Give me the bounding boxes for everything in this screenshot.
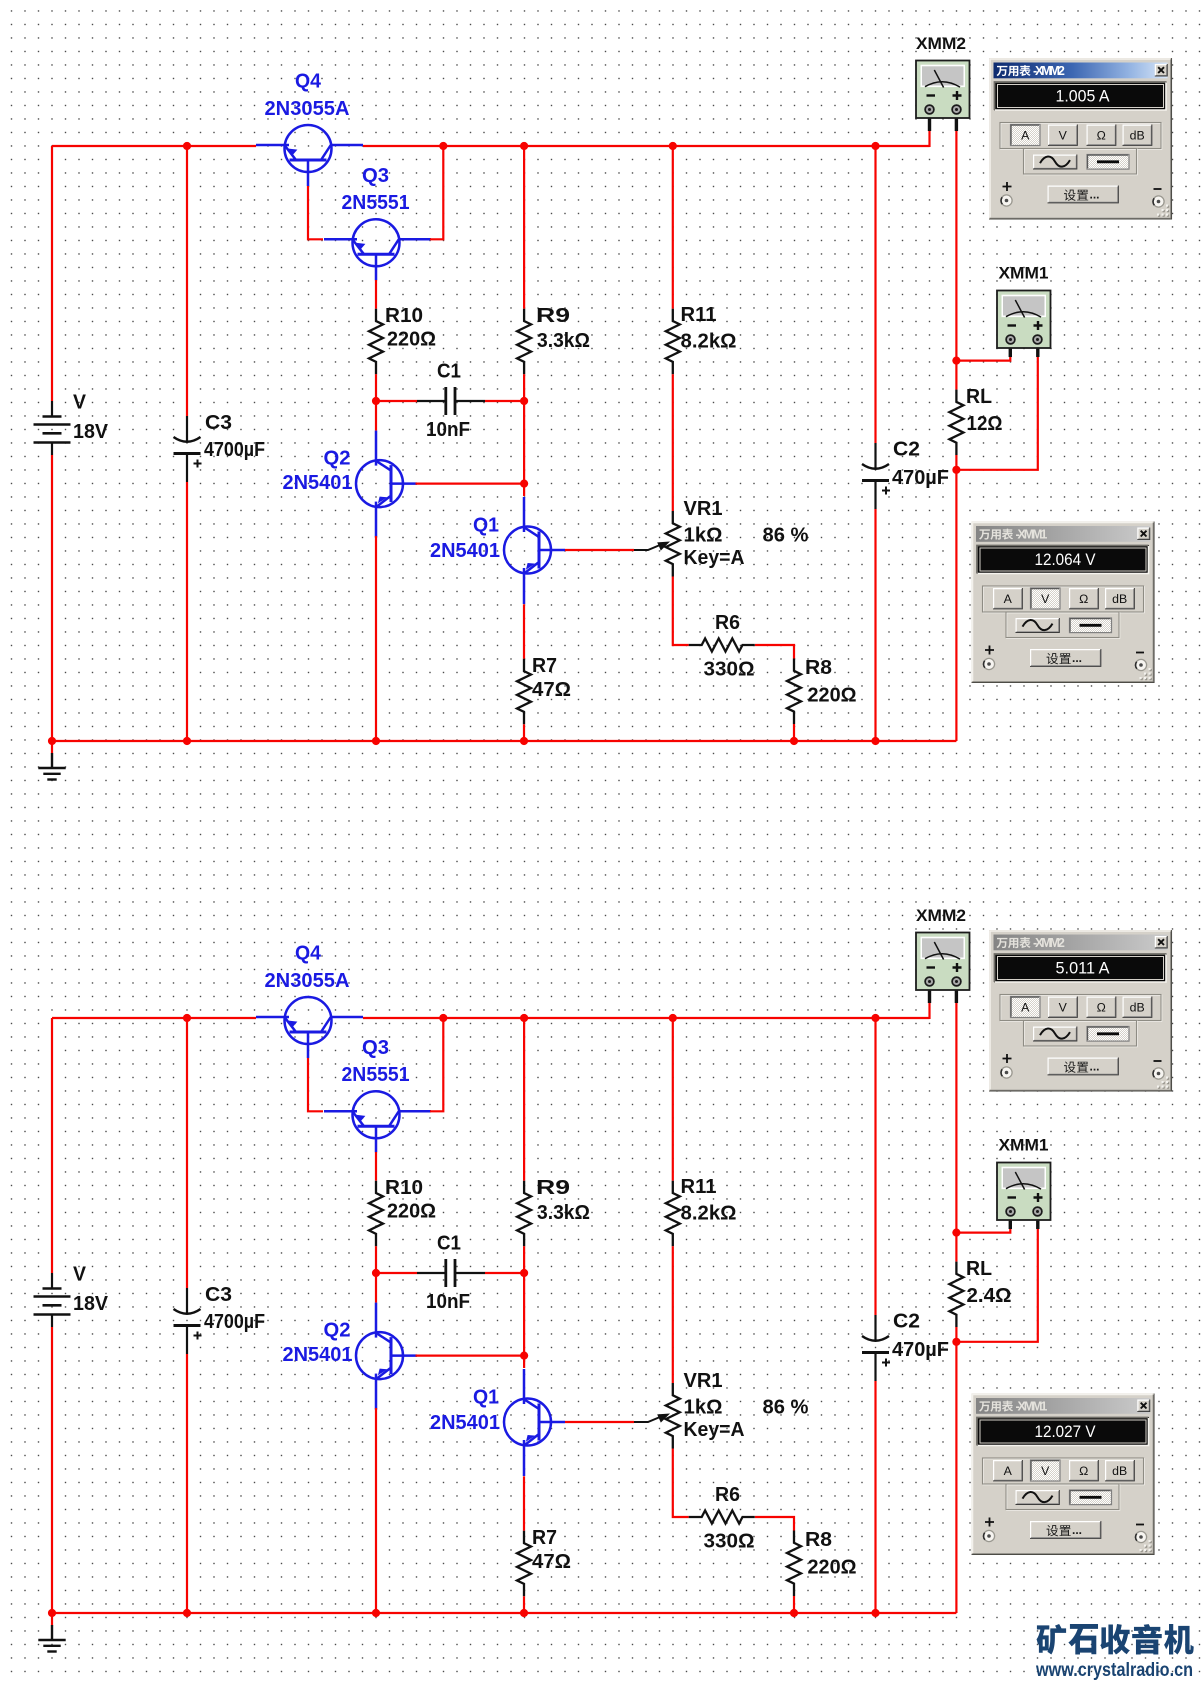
svg-text:12.064 V: 12.064 V [1035, 551, 1096, 569]
svg-text:RL: RL [966, 386, 992, 408]
wire Q2 collector feed [375, 401, 377, 431]
svg-text:...: ... [1072, 651, 1082, 665]
junction node R10/C1/Q2 collector [372, 397, 380, 405]
svg-text:470µF: 470µF [892, 467, 949, 489]
junction node RL bottom / XMM1 plus [952, 1338, 960, 1346]
potentiometer wiper arrow [634, 542, 670, 551]
svg-text:3.3kΩ: 3.3kΩ [537, 330, 590, 352]
wire C2 branch top [874, 1018, 876, 1315]
wire left branch battery top [51, 1018, 53, 1273]
svg-text:18V: 18V [73, 421, 109, 443]
svg-text:XMM1: XMM1 [999, 1136, 1049, 1155]
svg-text:A: A [1021, 1000, 1030, 1014]
svg-text:8.2kΩ: 8.2kΩ [681, 331, 737, 353]
svg-text:2N5401: 2N5401 [430, 540, 500, 562]
junction node ground rail / Q2 emitter [372, 1609, 380, 1617]
junction node ground rail / battery / ground [48, 1609, 56, 1617]
svg-text:220Ω: 220Ω [808, 685, 857, 707]
wire R7 bottom [523, 1596, 525, 1613]
wire Q3 collector riser [430, 1018, 443, 1111]
wire C1 right [485, 400, 524, 402]
svg-text:V: V [1059, 128, 1068, 142]
multimeter XMM1 icon [997, 1163, 1051, 1221]
wire XMM2 plus down to RL [955, 131, 957, 390]
transistor Q3 2N5551 [324, 1091, 431, 1152]
svg-text:XMM2: XMM2 [916, 34, 966, 53]
svg-text:R8: R8 [805, 657, 832, 679]
resistor RL 2.4Ω [949, 1262, 963, 1328]
wire bottom ground rail [52, 740, 956, 742]
svg-text:R9: R9 [536, 1177, 570, 1199]
wire XMM1 minus terminal stub [1009, 342, 1012, 357]
wire Q4 base to Q3 emitter [308, 1058, 323, 1111]
svg-text:18V: 18V [73, 1293, 109, 1315]
svg-text:220Ω: 220Ω [387, 1201, 436, 1223]
svg-text:V: V [1059, 1000, 1068, 1014]
wire Q1 base to VR1 wiper [565, 1421, 634, 1423]
wire top rail right segment [363, 1017, 930, 1019]
svg-text:2N5401: 2N5401 [430, 1412, 500, 1434]
wire Q2 emitter to ground rail [375, 536, 377, 741]
svg-text:R10: R10 [385, 305, 423, 327]
wire R9 branch from rail [523, 1018, 525, 1181]
junction node top rail / C2 [871, 1014, 879, 1022]
wire Q1 base to VR1 wiper [565, 549, 634, 551]
wire XMM1 minus to RL top node [956, 1229, 1010, 1233]
svg-text:10nF: 10nF [426, 1291, 470, 1313]
battery V 18V [34, 1273, 71, 1327]
wire R9 branch from rail [523, 146, 525, 309]
junction node Q2 base [520, 480, 528, 488]
svg-text:4700µF: 4700µF [204, 1311, 265, 1333]
junction node top rail / R9 [520, 1014, 528, 1022]
wire XMM1 plus to RL bottom node [956, 1229, 1037, 1342]
wire C3 branch top [186, 1018, 188, 1288]
resistor RL 12Ω [949, 390, 963, 456]
svg-text:www.crystalradio.cn: www.crystalradio.cn [1035, 1659, 1193, 1681]
svg-text:V: V [1041, 592, 1050, 606]
junction node ground rail / C2 [871, 1609, 879, 1617]
svg-text:Q4: Q4 [295, 943, 322, 965]
svg-text:RL: RL [966, 1258, 992, 1280]
junction node top rail / C2 [871, 142, 879, 150]
svg-text:R9: R9 [536, 305, 570, 327]
transistor Q2 2N5401 [356, 431, 417, 538]
svg-text:C1: C1 [437, 1233, 461, 1255]
svg-text:V: V [1041, 1464, 1050, 1478]
resistor R6 330ohm [689, 639, 755, 652]
battery V 18V [34, 401, 71, 455]
svg-text:R11: R11 [681, 1176, 717, 1198]
wire R11 branch from rail [672, 146, 674, 309]
wire R11 branch from rail [672, 1018, 674, 1181]
wire XMM2 minus terminal stub [928, 984, 931, 1003]
svg-text:V: V [73, 392, 87, 414]
svg-text:dB: dB [1130, 1000, 1145, 1014]
svg-text:Key=A: Key=A [684, 1419, 745, 1441]
wire R9 bottom [523, 1246, 525, 1273]
svg-text:...: ... [1090, 188, 1100, 202]
wire R11 to VR1 [672, 374, 674, 511]
svg-text:Q3: Q3 [362, 1037, 389, 1059]
potentiometer wiper arrow [634, 1414, 670, 1423]
svg-text:470µF: 470µF [892, 1339, 949, 1361]
wire R9/C1 node down to Q1 [523, 1273, 525, 1368]
wire R9/C1 node down to Q1 [523, 401, 525, 496]
wire VR1 bottom to R6 [673, 577, 689, 646]
wire XMM1 plus terminal stub [1036, 1214, 1039, 1229]
svg-text:2N3055A: 2N3055A [265, 970, 350, 992]
wire XMM1 minus to RL top node [956, 357, 1010, 361]
junction node top rail / R11 [669, 142, 677, 150]
svg-text:R6: R6 [715, 612, 740, 634]
junction node top rail / Q3 collector [439, 1014, 447, 1022]
potentiometer VR1 1kohm [666, 511, 680, 577]
junction node top rail / C3 [183, 142, 191, 150]
svg-text:-XMM2: -XMM2 [1033, 64, 1065, 78]
svg-text:86 %: 86 % [763, 525, 809, 547]
wire XMM2 minus to rail [928, 131, 930, 147]
svg-text:...: ... [1072, 1523, 1082, 1537]
svg-text:2N5551: 2N5551 [342, 192, 410, 214]
wire RL bottom node to rail [955, 1342, 957, 1613]
svg-text:VR1: VR1 [684, 498, 723, 520]
wire R6 to R8 [755, 645, 794, 659]
wire RL bottom [955, 455, 957, 470]
svg-text:2.4Ω: 2.4Ω [967, 1285, 1012, 1307]
svg-text:...: ... [1090, 1060, 1100, 1074]
svg-text:R6: R6 [715, 1484, 740, 1506]
svg-text:C1: C1 [437, 361, 461, 383]
resistor R8 220ohm [787, 1531, 801, 1597]
svg-text:Q4: Q4 [295, 71, 322, 93]
wire XMM2 plus terminal stub [955, 112, 958, 131]
junction node R9/C1/Q1 feed [520, 397, 528, 405]
wire XMM2 plus down to RL [955, 1003, 957, 1262]
junction node RL bottom / XMM1 plus [952, 466, 960, 474]
wire Q2 emitter to ground rail [375, 1408, 377, 1613]
wire C2 branch top [874, 146, 876, 443]
wire RL bottom node to rail [955, 470, 957, 741]
junction node top rail / R11 [669, 1014, 677, 1022]
junction node Q2 base [520, 1352, 528, 1360]
wire top rail left segment [52, 145, 256, 147]
wire XMM1 plus terminal stub [1036, 342, 1039, 357]
resistor R11 8.2kohm [666, 309, 680, 375]
svg-text:330Ω: 330Ω [704, 659, 755, 681]
resistor R6 330ohm [689, 1511, 755, 1524]
svg-text:2N5401: 2N5401 [283, 1344, 353, 1366]
wire Q2 base to node [416, 1354, 525, 1356]
junction node R9/C1/Q1 feed [520, 1269, 528, 1277]
transistor Q4 2N3055A [256, 125, 363, 186]
wire R7 bottom [523, 724, 525, 741]
svg-text:47Ω: 47Ω [532, 1551, 571, 1573]
wire R6 to R8 [755, 1517, 794, 1531]
junction node top rail / C3 [183, 1014, 191, 1022]
junction node RL top / XMM1 minus [952, 1229, 960, 1237]
ground symbol [51, 1613, 53, 1626]
wire R8 bottom [793, 724, 795, 741]
svg-text:1kΩ: 1kΩ [684, 1397, 723, 1419]
wire R9 bottom [523, 374, 525, 401]
svg-text:C3: C3 [205, 412, 232, 434]
wire Q1 emitter to R7 [523, 1476, 525, 1531]
resistor R7 47ohm [517, 659, 531, 725]
svg-text:5.011 A: 5.011 A [1056, 960, 1110, 978]
wire Q2 base to node [416, 483, 525, 485]
wire bottom ground rail [52, 1612, 956, 1614]
svg-text:XMM2: XMM2 [916, 906, 966, 925]
wire C3 branch bottom [186, 482, 188, 741]
svg-text:2N3055A: 2N3055A [265, 98, 350, 120]
resistor R7 47ohm [517, 1531, 531, 1597]
svg-text:-XMM1: -XMM1 [1016, 528, 1048, 542]
svg-text:12.027 V: 12.027 V [1035, 1423, 1096, 1441]
junction node ground rail / R7 [520, 1609, 528, 1617]
transistor Q2 2N5401 [356, 1303, 417, 1410]
svg-text:XMM1: XMM1 [999, 264, 1049, 283]
svg-text:4700µF: 4700µF [204, 439, 265, 461]
svg-text:Ω: Ω [1079, 1464, 1088, 1478]
capacitor C2 470uF [862, 443, 890, 509]
watermark 矿石收音机 logo [1037, 1624, 1067, 1655]
wire top rail right segment [363, 145, 930, 147]
svg-text:Q2: Q2 [324, 448, 351, 470]
svg-text:Q2: Q2 [324, 1320, 351, 1342]
svg-text:Ω: Ω [1097, 1000, 1106, 1014]
svg-text:Q3: Q3 [362, 165, 389, 187]
capacitor C3 4700uF [174, 416, 202, 482]
wire Q1 emitter to R7 [523, 604, 525, 659]
capacitor C2 470uF [862, 1315, 890, 1381]
svg-text:2N5401: 2N5401 [283, 472, 353, 494]
wire VR1 bottom to R6 [673, 1449, 689, 1518]
junction node top rail / Q3 collector [439, 142, 447, 150]
svg-text:R7: R7 [532, 655, 557, 677]
capacitor C1 10nF [417, 1259, 485, 1287]
svg-text:Q1: Q1 [473, 1387, 499, 1409]
wire R10 bottom [375, 374, 377, 401]
wire C3 branch top [186, 146, 188, 416]
wire R10 bottom [375, 1246, 377, 1273]
resistor R10 220ohm [369, 1181, 383, 1247]
capacitor C1 10nF [417, 387, 485, 415]
wire Q3 base to R10 [375, 280, 377, 309]
transistor Q1 2N5401 [504, 1369, 565, 1476]
svg-text:A: A [1021, 128, 1030, 142]
junction node RL top / XMM1 minus [952, 357, 960, 365]
potentiometer VR1 1kohm [666, 1383, 680, 1449]
svg-text:2N5551: 2N5551 [342, 1064, 410, 1086]
svg-text:R8: R8 [805, 1529, 832, 1551]
multimeter XMM1 icon [997, 291, 1051, 349]
wire XMM1 minus terminal stub [1009, 1214, 1012, 1229]
junction node ground rail / battery / ground [48, 737, 56, 745]
wire Q3 base to R10 [375, 1152, 377, 1181]
wire RL bottom [955, 1327, 957, 1342]
svg-text:220Ω: 220Ω [808, 1557, 857, 1579]
junction node ground rail / C3 [183, 737, 191, 745]
wire C1 left [376, 1272, 417, 1274]
svg-text:Ω: Ω [1079, 592, 1088, 606]
wire XMM1 plus to RL bottom node [956, 357, 1037, 470]
resistor R9 3.3kohm [517, 309, 531, 375]
svg-text:dB: dB [1112, 1464, 1127, 1478]
svg-text:86 %: 86 % [763, 1397, 809, 1419]
multimeter XMM2 icon [916, 933, 970, 991]
instrument window 万用表-XMM1 (top) [972, 522, 1155, 684]
wire XMM2 minus terminal stub [928, 112, 931, 131]
svg-text:1.005 A: 1.005 A [1056, 88, 1110, 106]
instrument window 万用表-XMM1 (bottom) [972, 1394, 1155, 1556]
instrument window 万用表-XMM2 (bottom) [989, 930, 1172, 1092]
svg-text:C2: C2 [893, 439, 920, 461]
junction node ground rail / R8 [790, 737, 798, 745]
svg-text:R7: R7 [532, 1527, 557, 1549]
svg-text:dB: dB [1112, 592, 1127, 606]
resistor R10 220ohm [369, 309, 383, 375]
ground symbol [51, 741, 53, 754]
svg-text:330Ω: 330Ω [704, 1531, 755, 1553]
capacitor C3 4700uF [174, 1288, 202, 1354]
wire C2 branch bottom [874, 1381, 876, 1613]
junction node ground rail / C2 [871, 737, 879, 745]
instrument window 万用表-XMM2 (top) [989, 58, 1172, 220]
svg-text:10nF: 10nF [426, 419, 470, 441]
svg-text:8.2kΩ: 8.2kΩ [681, 1203, 737, 1225]
svg-text:C3: C3 [205, 1284, 232, 1306]
wire top rail left segment [52, 1017, 256, 1019]
wire C1 right [485, 1272, 524, 1274]
transistor Q1 2N5401 [504, 497, 565, 604]
svg-text:3.3kΩ: 3.3kΩ [537, 1202, 590, 1224]
svg-text:-XMM1: -XMM1 [1016, 1400, 1048, 1414]
wire Q2 collector feed [375, 1273, 377, 1303]
svg-text:Q1: Q1 [473, 515, 499, 537]
resistor R9 3.3kohm [517, 1181, 531, 1247]
wire R11 to VR1 [672, 1246, 674, 1383]
svg-text:1kΩ: 1kΩ [684, 525, 723, 547]
wire left branch battery top [51, 146, 53, 401]
resistor R11 8.2kohm [666, 1181, 680, 1247]
junction node top rail / R9 [520, 142, 528, 150]
svg-text:A: A [1004, 1464, 1013, 1478]
wire Q4 base to Q3 emitter [308, 186, 323, 239]
svg-text:R10: R10 [385, 1177, 423, 1199]
svg-text:-XMM2: -XMM2 [1033, 936, 1065, 950]
svg-text:Ω: Ω [1097, 128, 1106, 142]
wire Q3 collector riser [430, 146, 443, 239]
svg-text:R11: R11 [681, 304, 717, 326]
svg-text:VR1: VR1 [684, 1370, 723, 1392]
wire left branch battery bottom [51, 455, 53, 741]
resistor R8 220ohm [787, 659, 801, 725]
junction node ground rail / R7 [520, 737, 528, 745]
svg-text:dB: dB [1130, 128, 1145, 142]
svg-text:C2: C2 [893, 1311, 920, 1333]
wire C1 left [376, 400, 417, 402]
wire XMM2 plus terminal stub [955, 984, 958, 1003]
svg-text:Key=A: Key=A [684, 547, 745, 569]
wire left branch battery bottom [51, 1327, 53, 1613]
svg-text:47Ω: 47Ω [532, 679, 571, 701]
junction node ground rail / R8 [790, 1609, 798, 1617]
multimeter XMM2 icon [916, 61, 970, 119]
junction node R10/C1/Q2 collector [372, 1269, 380, 1277]
wire C2 branch bottom [874, 509, 876, 741]
junction node ground rail / C3 [183, 1609, 191, 1617]
wire C3 branch bottom [186, 1354, 188, 1613]
svg-text:12Ω: 12Ω [967, 413, 1003, 435]
transistor Q3 2N5551 [324, 219, 431, 280]
svg-text:220Ω: 220Ω [387, 329, 436, 351]
svg-text:V: V [73, 1264, 87, 1286]
junction node ground rail / Q2 emitter [372, 737, 380, 745]
wire XMM2 minus to rail [928, 1003, 930, 1019]
transistor Q4 2N3055A [256, 997, 363, 1058]
wire R8 bottom [793, 1596, 795, 1613]
svg-text:A: A [1004, 592, 1013, 606]
